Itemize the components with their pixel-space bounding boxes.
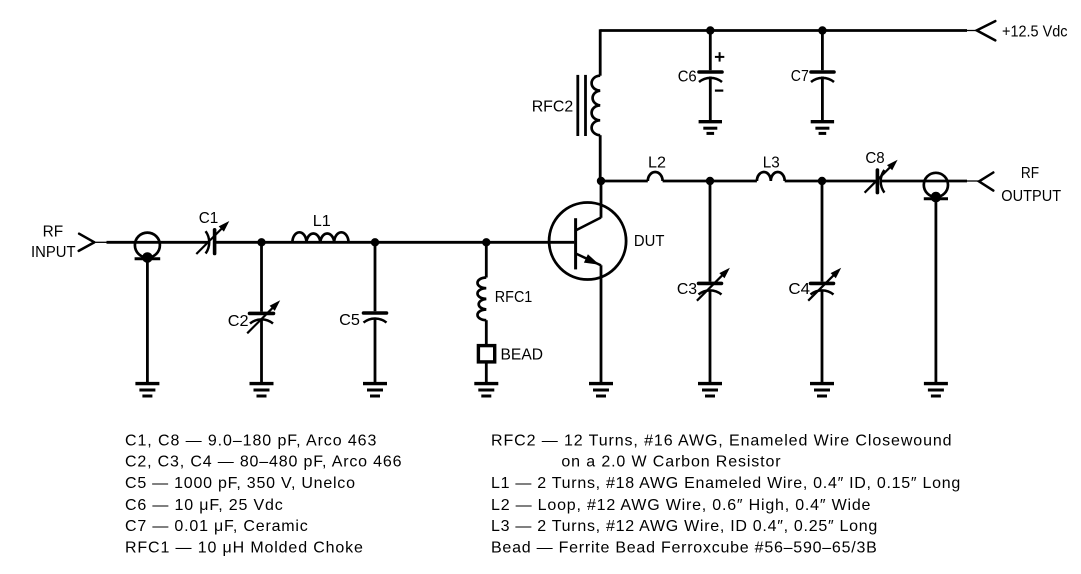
svg-text:L1: L1 [313, 213, 331, 230]
svg-text:C7 — 0.01 μF, Ceramic: C7 — 0.01 μF, Ceramic [125, 518, 309, 535]
svg-text:OUTPUT: OUTPUT [1001, 188, 1061, 205]
svg-text:C6 — 10 μF, 25 Vdc: C6 — 10 μF, 25 Vdc [125, 497, 284, 514]
svg-text:C4: C4 [788, 281, 810, 298]
svg-text:RF: RF [43, 224, 64, 241]
svg-text:C2: C2 [228, 313, 249, 330]
svg-text:C1: C1 [199, 210, 219, 227]
svg-text:C6: C6 [678, 69, 697, 86]
svg-text:on a 2.0 W Carbon Resistor: on a 2.0 W Carbon Resistor [561, 454, 781, 471]
svg-text:C2, C3, C4 — 80–480 pF, Arco 4: C2, C3, C4 — 80–480 pF, Arco 466 [125, 454, 402, 471]
svg-text:C5: C5 [339, 312, 360, 329]
svg-text:BEAD: BEAD [501, 346, 544, 363]
svg-text:C1, C8 — 9.0–180 pF, Arco 463: C1, C8 — 9.0–180 pF, Arco 463 [125, 432, 377, 449]
svg-text:C7: C7 [791, 68, 809, 85]
svg-text:+12.5 Vdc: +12.5 Vdc [1002, 24, 1068, 41]
svg-text:C5 — 1000 pF, 350 V, Unelco: C5 — 1000 pF, 350 V, Unelco [125, 475, 356, 492]
svg-text:L2 — Loop, #12 AWG Wire, 0.6″: L2 — Loop, #12 AWG Wire, 0.6″ High, 0.4″… [491, 497, 871, 514]
svg-text:C3: C3 [677, 281, 697, 298]
svg-text:C8: C8 [865, 150, 884, 167]
svg-text:INPUT: INPUT [31, 244, 76, 261]
svg-text:RF: RF [1021, 165, 1039, 182]
svg-text:DUT: DUT [634, 233, 665, 250]
svg-text:RFC1: RFC1 [495, 289, 533, 306]
svg-text:RFC2: RFC2 [532, 99, 574, 116]
svg-text:L1 — 2 Turns, #18 AWG Enameled: L1 — 2 Turns, #18 AWG Enameled Wire, 0.4… [491, 475, 961, 492]
svg-text:RFC1 — 10 μH Molded Choke: RFC1 — 10 μH Molded Choke [125, 539, 364, 556]
svg-text:L3: L3 [763, 155, 780, 172]
svg-text:L3 — 2 Turns, #12 AWG Wire, ID: L3 — 2 Turns, #12 AWG Wire, ID 0.4″, 0.2… [491, 518, 878, 535]
svg-text:Bead — Ferrite Bead Ferroxcube: Bead — Ferrite Bead Ferroxcube #56–590–6… [491, 539, 878, 556]
svg-text:L2: L2 [648, 155, 666, 172]
svg-text:RFC2 — 12 Turns, #16 AWG, Enam: RFC2 — 12 Turns, #16 AWG, Enameled Wire … [491, 432, 952, 449]
